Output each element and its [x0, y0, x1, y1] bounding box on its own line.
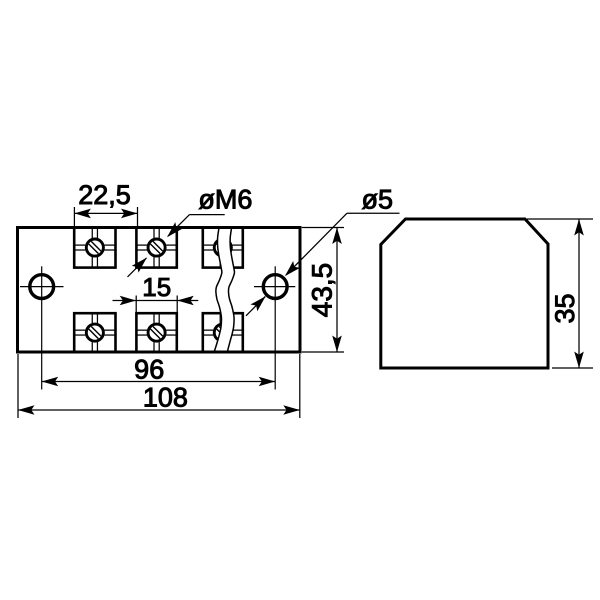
dimension 22,5 (terminal pitch)	[74, 180, 137, 227]
terminal pocket A3	[203, 228, 243, 268]
terminal pocket A1	[74, 228, 115, 268]
svg-text:øM6: øM6	[198, 184, 252, 214]
terminal pocket B1	[74, 313, 115, 352]
terminal pocket B2	[136, 313, 176, 352]
mounting hole right (o5)	[254, 266, 295, 389]
svg-text:96: 96	[134, 354, 164, 384]
side view outline	[381, 219, 548, 368]
dimension 35 (side height)	[527, 219, 593, 368]
dimension 15 (pocket width)	[113, 272, 199, 313]
dimension 96 (hole spacing)	[42, 354, 276, 386]
dimension 43,5 (body height)	[302, 228, 344, 353]
break lines (broken-out section)	[214, 228, 235, 353]
terminal pocket A2	[136, 228, 176, 268]
label o5 (mounting hole dia) with leader	[246, 184, 400, 315]
svg-text:ø5: ø5	[362, 184, 394, 214]
body outline (top view)	[18, 228, 301, 353]
svg-text:22,5: 22,5	[78, 180, 131, 210]
dimension 108 (body length)	[18, 354, 300, 418]
mounting hole left (o5)	[20, 266, 64, 389]
svg-text:108: 108	[143, 383, 188, 413]
terminal pocket B3	[203, 313, 243, 352]
svg-text:35: 35	[550, 293, 580, 323]
svg-text:43,5: 43,5	[307, 263, 338, 318]
svg-text:15: 15	[142, 272, 171, 302]
label oM6 (screw thread) with leader	[128, 184, 253, 277]
